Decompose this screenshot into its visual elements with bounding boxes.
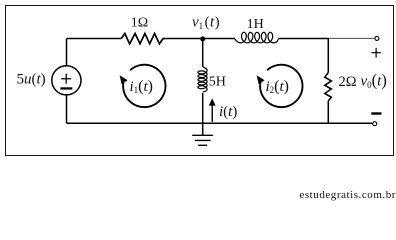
svg-text:v0(t): v0(t)	[361, 70, 387, 90]
svg-text:v1(t): v1(t)	[192, 15, 220, 32]
svg-text:1Ω: 1Ω	[131, 16, 148, 31]
svg-text:i2(t): i2(t)	[266, 78, 290, 95]
svg-text:2Ω: 2Ω	[339, 74, 357, 90]
svg-text:i(t): i(t)	[219, 104, 237, 120]
svg-text:5u(t): 5u(t)	[17, 72, 46, 88]
svg-text:estudegratis.com.br: estudegratis.com.br	[299, 189, 396, 201]
svg-text:1H: 1H	[247, 17, 264, 32]
svg-text:5H: 5H	[209, 74, 226, 89]
svg-text:i1(t): i1(t)	[130, 78, 154, 95]
